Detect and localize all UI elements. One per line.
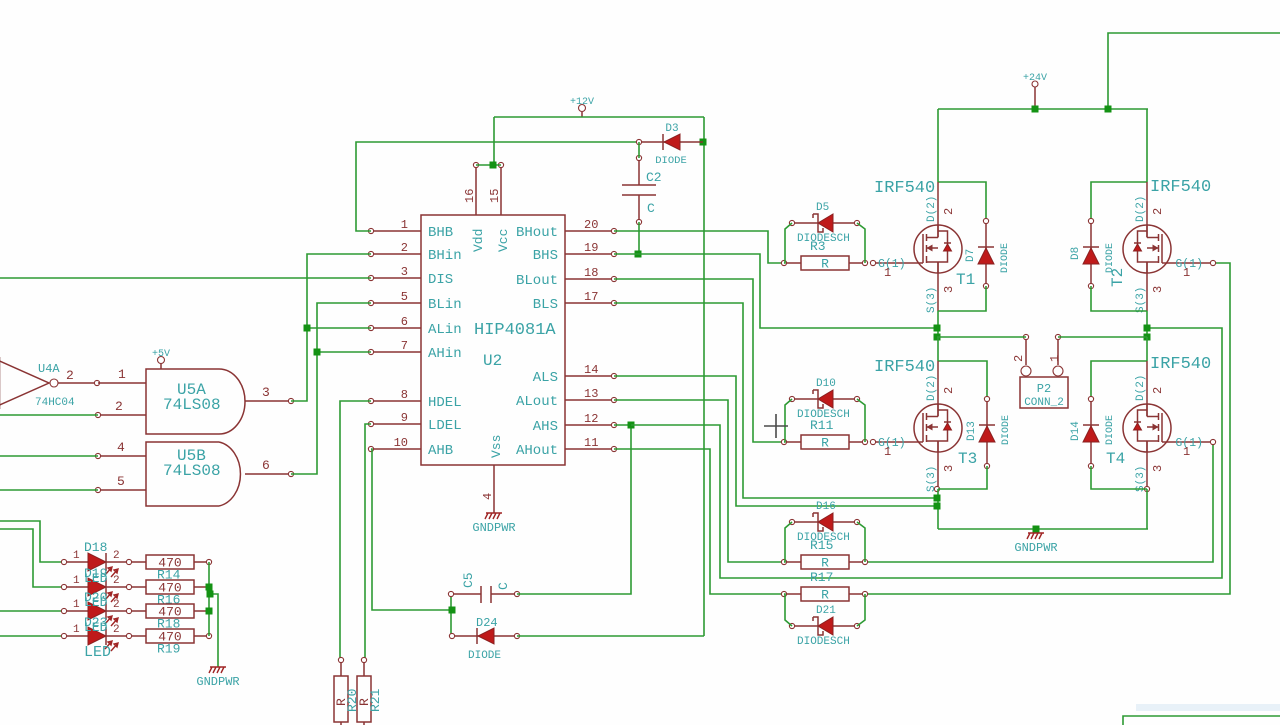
svg-text:2: 2: [113, 624, 120, 636]
wire T4 pin stubs: [1146, 361, 1148, 416]
node junction ALin: [304, 325, 311, 332]
wire BLS to T3 source: [614, 303, 937, 498]
node junction T3S/ALS: [934, 503, 941, 510]
svg-text:AHS: AHS: [533, 419, 558, 435]
transistor T4 IRF540: [1106, 375, 1171, 492]
wire LED D19 input: [0, 529, 64, 587]
svg-text:1: 1: [73, 575, 80, 587]
svg-text:2: 2: [942, 208, 956, 215]
svg-text:D18: D18: [84, 540, 107, 555]
wire D7 to T1 source: [938, 286, 986, 311]
wire T2 pin stubs: [1146, 182, 1148, 237]
svg-text:3: 3: [942, 465, 956, 472]
wire top-right feed: [1108, 33, 1280, 109]
svg-text:IRF540: IRF540: [874, 358, 935, 377]
diode D13: [966, 396, 1012, 468]
wire BLout to R11: [614, 279, 784, 442]
svg-text:GNDPWR: GNDPWR: [1014, 541, 1057, 555]
diode D7: [965, 218, 1011, 288]
wire T1 drain staple to D7: [938, 182, 986, 221]
wire +12V vertical rail to D24: [703, 117, 705, 636]
svg-text:+24V: +24V: [1023, 73, 1047, 84]
svg-text:AHout: AHout: [516, 443, 558, 459]
pin 1 BHB of U2: [368, 218, 453, 241]
wire LED common to ground: [209, 594, 218, 667]
wire C2 bottom to BHS: [638, 222, 640, 254]
wire C5-D24 left node: [450, 594, 452, 636]
svg-text:BHout: BHout: [516, 225, 558, 241]
svg-text:ALS: ALS: [533, 370, 558, 386]
svg-text:18: 18: [584, 266, 598, 280]
svg-text:DIODE: DIODE: [1105, 243, 1116, 273]
wire AHin branch: [317, 351, 371, 353]
wire D24 to +12V rail: [517, 635, 704, 637]
svg-text:3: 3: [1151, 465, 1165, 472]
svg-text:1: 1: [884, 445, 891, 459]
svg-text:ALout: ALout: [516, 394, 558, 410]
wire U5B input 4 from left edge: [0, 455, 98, 457]
svg-text:4: 4: [481, 493, 495, 500]
svg-text:IRF540: IRF540: [1150, 178, 1211, 197]
svg-text:DIODE: DIODE: [655, 155, 687, 167]
svg-text:3: 3: [1151, 286, 1165, 293]
capacitor C5: [448, 572, 519, 603]
svg-text:12: 12: [584, 412, 598, 426]
node junction AHin: [314, 349, 321, 356]
svg-text:17: 17: [584, 290, 598, 304]
pin 17 BLS of U2: [533, 290, 617, 313]
wire LDEL to R21: [365, 424, 371, 660]
wire D10/R11 left bracket: [784, 399, 792, 442]
wire T2 source node: [1146, 311, 1148, 337]
svg-text:5: 5: [401, 290, 408, 304]
svg-text:DIODE: DIODE: [1000, 243, 1011, 273]
node junction R14/R16: [206, 584, 213, 591]
svg-text:D24: D24: [476, 616, 498, 630]
pin 16 Vdd of U2: [463, 162, 479, 215]
svg-text:D8: D8: [1070, 247, 1082, 260]
node junction gnd tap: [207, 591, 214, 598]
svg-text:4: 4: [117, 440, 125, 455]
svg-text:GNDPWR: GNDPWR: [472, 521, 515, 535]
svg-text:D13: D13: [966, 421, 978, 441]
resistor R11: [781, 418, 867, 451]
power +12V: [570, 97, 594, 117]
svg-text:T4: T4: [1106, 450, 1125, 468]
diode D14: [1070, 396, 1116, 468]
wire bottom-right frame: [1123, 716, 1280, 725]
svg-text:U2: U2: [483, 352, 502, 370]
node junction BHS/C2: [635, 251, 642, 258]
LED D19: [61, 575, 129, 602]
svg-text:Vdd: Vdd: [471, 229, 486, 252]
wire ALin branch: [307, 327, 371, 329]
svg-text:R: R: [821, 257, 829, 272]
op-amp U2 HIP4081A body: [421, 215, 565, 465]
resistor R19 470: [126, 629, 211, 657]
node origin cross marker: [764, 414, 788, 438]
svg-text:8: 8: [401, 388, 408, 402]
svg-text:LED: LED: [84, 595, 108, 610]
LED D23: [61, 624, 129, 651]
wire T3 source to ground rail: [937, 489, 939, 529]
node junction T2S/P2: [1144, 334, 1151, 341]
svg-text:LED: LED: [84, 571, 108, 586]
svg-text:3: 3: [401, 265, 408, 279]
logic gate U5B 74LS08: [95, 440, 293, 506]
svg-text:14: 14: [584, 363, 598, 377]
svg-text:HIP4081A: HIP4081A: [474, 321, 556, 340]
svg-text:R3: R3: [810, 239, 826, 254]
wire +24V rail: [938, 108, 1148, 110]
diode D24: [449, 616, 519, 662]
pin 7 AHin of U2: [368, 339, 461, 362]
wire T4 drain from bridge B: [1146, 337, 1148, 361]
diode D3: [636, 123, 703, 167]
pin 2 BHin of U2: [368, 241, 461, 264]
svg-text:D10: D10: [816, 378, 836, 390]
svg-text:S(3): S(3): [1135, 287, 1147, 313]
svg-text:D14: D14: [1070, 421, 1082, 441]
svg-text:DIS: DIS: [428, 272, 453, 288]
svg-text:2: 2: [1151, 387, 1165, 394]
pin 8 HDEL of U2: [368, 388, 461, 411]
svg-text:ALin: ALin: [428, 322, 462, 338]
svg-text:6: 6: [401, 315, 408, 329]
svg-text:LDEL: LDEL: [428, 418, 462, 434]
svg-text:C5: C5: [461, 572, 476, 588]
svg-text:P2: P2: [1037, 382, 1051, 396]
capacitor C2: [622, 155, 662, 224]
svg-text:AHin: AHin: [428, 346, 462, 362]
transistor T1 IRF540: [914, 196, 975, 313]
diode D10 DIODESCH: [789, 378, 859, 421]
wire D10/R11 right bracket: [857, 399, 865, 442]
ground GNDPWR (LED): [196, 667, 239, 689]
wire ALout to R15: [614, 400, 784, 562]
wire low-side ground rail: [938, 528, 1148, 530]
ground GNDPWR (bridge): [1014, 533, 1057, 555]
wire D16/R15 right bracket: [857, 522, 865, 562]
svg-text:U4A: U4A: [38, 362, 60, 376]
wire D5/R3 right bracket: [857, 223, 865, 263]
resistor R15: [781, 538, 867, 571]
svg-text:R: R: [821, 436, 829, 451]
diode D21 DIODESCH: [789, 605, 859, 648]
svg-text:CONN_2: CONN_2: [1024, 397, 1064, 409]
svg-text:2: 2: [113, 575, 120, 587]
svg-text:9: 9: [401, 411, 408, 425]
resistor R14 470: [126, 555, 211, 583]
pin 5 BLin of U2: [368, 290, 461, 313]
transistor T2 IRF540: [1109, 196, 1171, 313]
svg-text:D5: D5: [816, 202, 829, 214]
node junction AHB/C5/D24: [449, 607, 456, 614]
node junction ground rail: [1033, 526, 1040, 533]
resistor R18 470: [126, 604, 211, 632]
resistor R3: [781, 239, 867, 272]
wire LED D20 input: [0, 610, 64, 612]
svg-text:2: 2: [115, 399, 123, 414]
wire D21/R17 right bracket: [857, 594, 865, 626]
svg-text:S(3): S(3): [926, 287, 938, 313]
transistor T3 IRF540: [914, 375, 977, 492]
node junction +24V: [1032, 106, 1039, 113]
wire +12V rail: [494, 116, 704, 118]
pin 14 ALS of U2: [533, 363, 617, 386]
svg-text:3: 3: [262, 385, 270, 400]
svg-text:11: 11: [584, 436, 598, 450]
svg-text:2: 2: [401, 241, 408, 255]
ground GNDPWR (U2 Vss): [472, 513, 515, 535]
wire T3 drain from bridge A: [937, 337, 939, 361]
svg-text:R11: R11: [810, 418, 834, 433]
wire U5A input 2 from left edge: [0, 414, 98, 416]
wire D21/R17 left bracket: [784, 594, 792, 626]
svg-text:D(2): D(2): [1135, 375, 1147, 401]
pin 4 Vss of U2: [481, 465, 495, 513]
svg-text:BLS: BLS: [533, 297, 558, 313]
svg-text:1: 1: [118, 367, 126, 382]
wire HDEL to R20: [340, 401, 371, 660]
node junction T3S/BLS: [934, 495, 941, 502]
wire AHS branch: [614, 424, 631, 426]
svg-text:G(1): G(1): [878, 258, 906, 271]
node junction D3 cathode: [700, 139, 707, 146]
wire T4 source to ground rail: [1146, 489, 1148, 529]
svg-text:BLin: BLin: [428, 297, 462, 313]
pin 15 Vcc of U2: [488, 162, 504, 215]
svg-text:1: 1: [73, 599, 80, 611]
resistor R20: [334, 657, 360, 725]
wire U5B output to BLin/AHin: [291, 303, 371, 474]
svg-text:R15: R15: [810, 538, 833, 553]
wire T3 drain staple to D13: [938, 361, 987, 399]
svg-text:GNDPWR: GNDPWR: [196, 675, 239, 689]
svg-text:BHS: BHS: [533, 248, 558, 264]
wire C5 right to AHS: [517, 425, 631, 594]
diode D16 DIODESCH: [789, 501, 859, 544]
svg-text:D3: D3: [665, 123, 678, 135]
wire DIS to left edge: [0, 277, 371, 279]
svg-text:R19: R19: [157, 642, 180, 657]
svg-text:IRF540: IRF540: [874, 179, 935, 198]
svg-text:R: R: [821, 556, 829, 571]
connector P2 CONN_2: [1012, 334, 1068, 409]
logic gate U5A 74LS08: [95, 367, 293, 434]
power +24V: [1023, 73, 1047, 109]
svg-text:2: 2: [942, 387, 956, 394]
resistor R17: [781, 570, 867, 603]
svg-text:20: 20: [584, 218, 598, 232]
resistor R16 470: [126, 580, 211, 608]
wire bridge B to P2 pin1: [1058, 336, 1147, 338]
svg-text:T1: T1: [956, 271, 975, 289]
wire D8 to T2 source: [1091, 286, 1147, 311]
svg-text:C: C: [496, 582, 511, 590]
svg-text:10: 10: [394, 436, 408, 450]
pin 11 AHout of U2: [516, 436, 617, 459]
wire LED common cathode: [208, 562, 210, 636]
wire T2 drain staple to D8: [1091, 182, 1147, 221]
svg-text:R17: R17: [810, 570, 833, 585]
svg-text:T3: T3: [958, 450, 977, 468]
node junction T1S/BHS: [934, 325, 941, 332]
svg-text:6: 6: [262, 458, 270, 473]
svg-text:AHB: AHB: [428, 443, 453, 459]
svg-text:1: 1: [1183, 266, 1190, 280]
svg-text:1: 1: [1048, 355, 1062, 362]
svg-text:R21: R21: [368, 688, 383, 712]
pin 18 BLout of U2: [516, 266, 617, 289]
svg-text:1: 1: [1183, 445, 1190, 459]
svg-text:IRF540: IRF540: [1150, 355, 1211, 374]
svg-text:D(2): D(2): [1135, 196, 1147, 222]
wire C2 top stub: [638, 142, 640, 158]
node junction AHS: [628, 422, 635, 429]
svg-text:C2: C2: [646, 170, 662, 185]
svg-text:LED: LED: [84, 620, 108, 635]
node junction T2S/AHS: [1144, 325, 1151, 332]
wire BHS to T1 source: [614, 254, 937, 328]
wire U5A output to BHin/ALin: [291, 254, 371, 401]
LED D18: [61, 550, 129, 577]
pin 20 BHout of U2: [516, 218, 617, 241]
svg-text:2: 2: [1012, 355, 1026, 362]
svg-text:5: 5: [117, 474, 125, 489]
pin 19 BHS of U2: [533, 241, 617, 264]
wire T1 source node: [937, 311, 939, 337]
svg-text:1: 1: [73, 624, 80, 636]
wire AHS to T2 source: [631, 328, 1222, 578]
svg-text:3: 3: [942, 286, 956, 293]
LED D20: [61, 599, 129, 626]
wire T1 drain from rail: [937, 109, 939, 182]
wire LED D18 input: [0, 521, 64, 562]
svg-text:G(1): G(1): [878, 437, 906, 450]
pin 13 ALout of U2: [516, 387, 617, 410]
wire T4 drain staple to D14: [1091, 361, 1147, 399]
wire BHout to R3: [614, 231, 784, 263]
wire U5B input 5 from left edge: [0, 489, 98, 491]
node junction R18: [206, 608, 213, 615]
svg-text:D(2): D(2): [926, 375, 938, 401]
wire D5/R3 left bracket: [784, 223, 792, 263]
pin 3 DIS of U2: [368, 265, 453, 288]
wire D13 to T3 source: [938, 466, 987, 489]
svg-text:D(2): D(2): [926, 196, 938, 222]
svg-text:19: 19: [584, 241, 598, 255]
svg-text:DIODE: DIODE: [1001, 415, 1012, 445]
svg-text:Vss: Vss: [489, 435, 504, 458]
svg-text:HDEL: HDEL: [428, 395, 462, 411]
wire R15 to T4 gate: [865, 442, 1213, 562]
wire T1 pin stubs: [937, 182, 939, 237]
svg-text:BHin: BHin: [428, 248, 462, 264]
svg-text:C: C: [647, 201, 655, 216]
wire bridge A to P2 pin2: [937, 336, 1026, 338]
pin 12 AHS of U2: [533, 412, 617, 435]
node junction top-right: [1105, 106, 1112, 113]
svg-text:D7: D7: [965, 249, 977, 262]
svg-text:BHB: BHB: [428, 225, 453, 241]
diode D5 DIODESCH: [789, 202, 859, 245]
svg-text:15: 15: [488, 189, 502, 203]
svg-text:R: R: [821, 588, 829, 603]
svg-text:74LS08: 74LS08: [163, 462, 221, 480]
wire D16/R15 left bracket: [784, 522, 792, 562]
svg-text:16: 16: [463, 189, 477, 203]
svg-text:2: 2: [113, 550, 120, 562]
svg-text:DIODE: DIODE: [468, 650, 501, 662]
transistor U4A 74HC04 inverter: [0, 357, 100, 409]
svg-text:2: 2: [113, 599, 120, 611]
svg-text:13: 13: [584, 387, 598, 401]
svg-text:74LS08: 74LS08: [163, 396, 221, 414]
svg-text:DIODE: DIODE: [1105, 415, 1116, 445]
svg-text:D16: D16: [816, 501, 836, 513]
wire AHB to C5/D24: [371, 449, 452, 610]
wire LED D23 input: [0, 635, 64, 637]
wire AHout to R17: [614, 449, 784, 594]
wire D14 to T4 source: [1091, 466, 1147, 489]
svg-text:LED: LED: [84, 644, 111, 661]
svg-text:DIODESCH: DIODESCH: [797, 636, 850, 648]
svg-text:D21: D21: [816, 605, 836, 617]
resistor R21: [357, 657, 383, 725]
node junction T1S/P2: [934, 334, 941, 341]
wire T2 drain from rail: [1146, 109, 1148, 182]
pin 10 AHB of U2: [368, 436, 453, 459]
wire ALS to T3/T4 source net: [614, 376, 937, 506]
svg-text:BLout: BLout: [516, 273, 558, 289]
svg-text:2: 2: [66, 368, 74, 383]
svg-text:Vcc: Vcc: [496, 229, 511, 252]
wire T3 pin stubs: [937, 361, 939, 416]
diode D8: [1070, 218, 1116, 288]
svg-text:+5V: +5V: [152, 349, 170, 360]
svg-text:7: 7: [401, 339, 408, 353]
svg-text:1: 1: [884, 266, 891, 280]
svg-text:2: 2: [1151, 208, 1165, 215]
svg-text:74HC04: 74HC04: [35, 397, 75, 409]
pin 9 LDEL of U2: [368, 411, 461, 434]
node junction Vdd/Vcc: [490, 162, 497, 169]
wire BHB bootstrap (pin1 to C2/D3): [356, 142, 639, 231]
wire Vdd/Vcc feed: [493, 117, 495, 165]
wire R17 to T2 gate: [865, 263, 1230, 594]
svg-text:+12V: +12V: [570, 97, 594, 108]
pin 6 ALin of U2: [368, 315, 461, 338]
svg-text:1: 1: [401, 218, 408, 232]
power +5V (U5A): [152, 349, 170, 369]
svg-text:1: 1: [73, 550, 80, 562]
